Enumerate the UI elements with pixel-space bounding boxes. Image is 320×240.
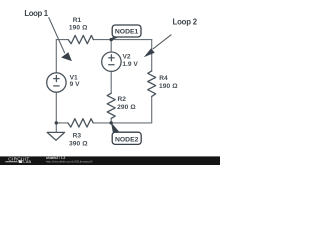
svg-text:190 Ω: 190 Ω	[69, 24, 88, 31]
svg-text:LAB: LAB	[23, 159, 31, 164]
svg-text:R4: R4	[159, 75, 168, 82]
svg-text:R3: R3	[73, 133, 82, 140]
svg-text:R2: R2	[118, 96, 127, 103]
svg-text:1.9 V: 1.9 V	[122, 61, 138, 68]
svg-text:NODE1: NODE1	[115, 29, 139, 36]
svg-text:190 Ω: 190 Ω	[159, 83, 178, 90]
svg-text:Loop 2: Loop 2	[173, 18, 198, 27]
svg-text:NODE2: NODE2	[115, 136, 139, 143]
svg-text:Loop 1: Loop 1	[24, 9, 48, 18]
svg-text:R1: R1	[73, 17, 82, 24]
svg-text:V2: V2	[123, 54, 131, 61]
svg-text:390 Ω: 390 Ω	[69, 141, 88, 148]
svg-text:290 Ω: 290 Ω	[117, 104, 136, 111]
svg-text:http://circuitlab.com/c/53Upra: http://circuitlab.com/c/53Upraaoqt3	[46, 160, 93, 164]
svg-text:9 V: 9 V	[70, 81, 80, 88]
